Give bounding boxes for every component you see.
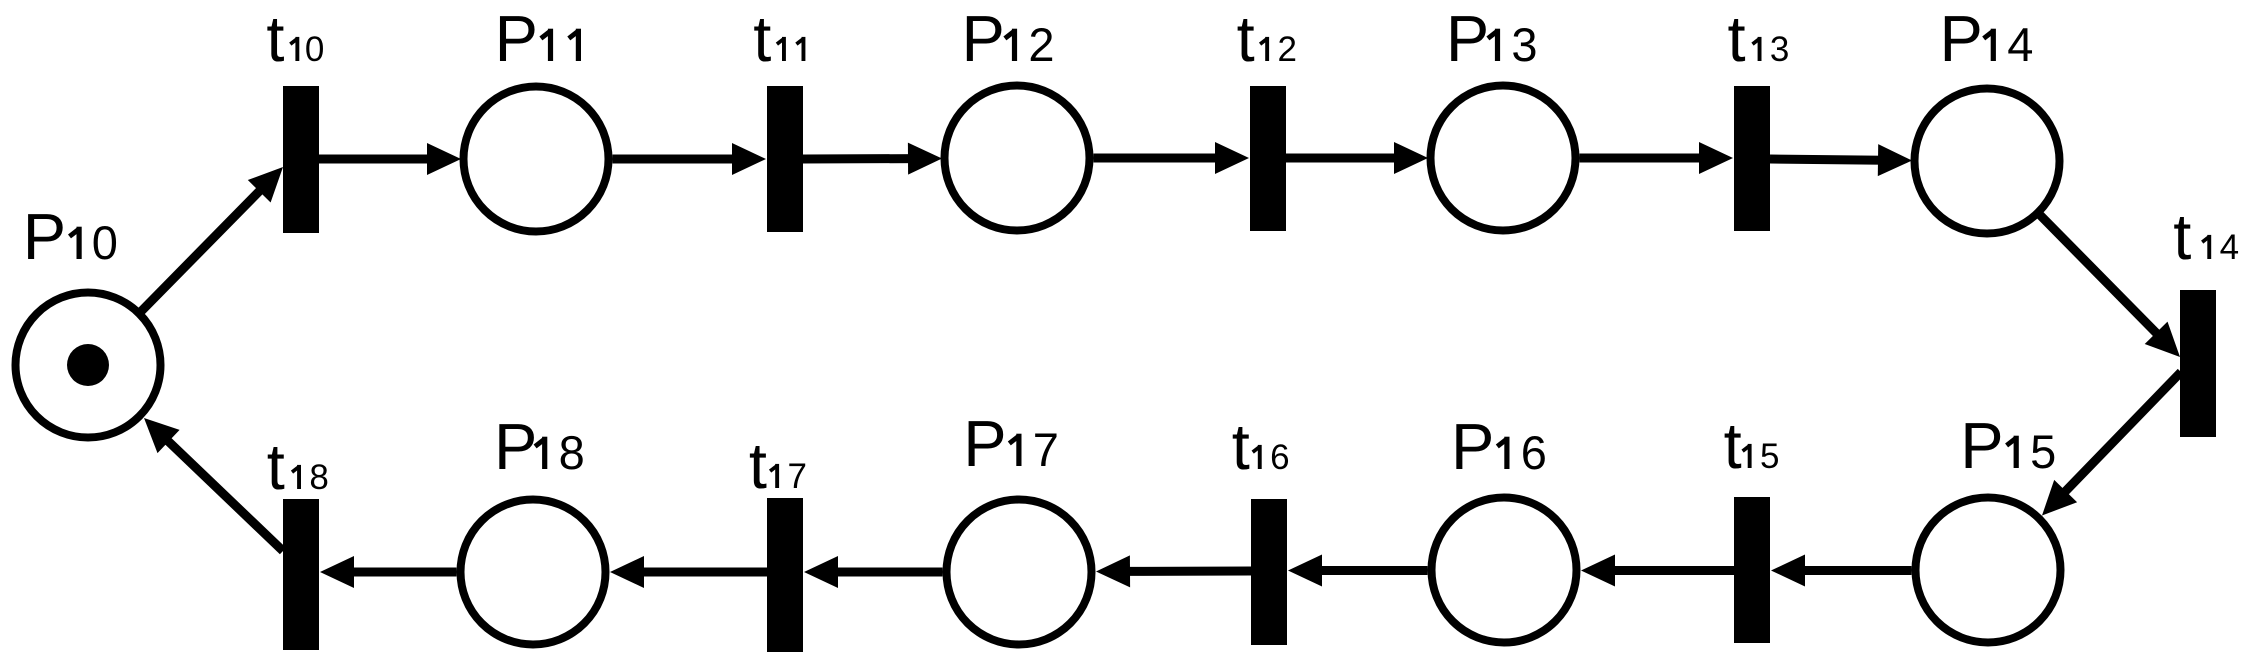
transition t16 bbox=[1251, 499, 1287, 645]
transition t11 bbox=[767, 86, 803, 232]
svg-text:0: 0 bbox=[92, 216, 118, 269]
place P15 bbox=[1916, 498, 2061, 643]
transition t18 bbox=[283, 499, 319, 650]
svg-text:t: t bbox=[1237, 2, 1255, 75]
svg-text:6: 6 bbox=[1521, 426, 1547, 479]
svg-text:3: 3 bbox=[1770, 30, 1789, 69]
place P12 bbox=[945, 86, 1090, 231]
label t14 bbox=[2173, 200, 2239, 273]
wire t10-P11 bbox=[319, 143, 461, 175]
svg-text:6: 6 bbox=[1270, 438, 1289, 477]
wire P11-t11 bbox=[613, 143, 767, 175]
label t15 bbox=[1724, 409, 1780, 482]
svg-text:2: 2 bbox=[1028, 18, 1054, 71]
wire t11-P12 bbox=[803, 143, 942, 175]
svg-text:t: t bbox=[749, 429, 767, 502]
label t11 bbox=[753, 2, 805, 75]
label P15 bbox=[1960, 409, 2056, 482]
label P13 bbox=[1446, 2, 1538, 75]
svg-text:8: 8 bbox=[559, 426, 585, 479]
place P18 bbox=[461, 500, 606, 645]
label t12 bbox=[1237, 2, 1297, 75]
wire P10-t10 bbox=[142, 167, 284, 311]
wire t15-P16 bbox=[1581, 555, 1734, 587]
wire t13-P14 bbox=[1770, 144, 1912, 176]
place P17 bbox=[947, 500, 1092, 645]
wire P16-t16 bbox=[1288, 555, 1428, 587]
label P14 bbox=[1940, 2, 2034, 75]
svg-text:3: 3 bbox=[1511, 18, 1537, 71]
wire t17-P18 bbox=[610, 556, 767, 588]
svg-text:P: P bbox=[1451, 410, 1494, 483]
svg-text:P: P bbox=[494, 410, 537, 483]
svg-text:t: t bbox=[267, 430, 285, 503]
svg-text:4: 4 bbox=[2007, 18, 2033, 71]
label t18 bbox=[267, 430, 329, 503]
svg-text:4: 4 bbox=[2220, 228, 2239, 267]
svg-text:7: 7 bbox=[1033, 423, 1059, 476]
label t13 bbox=[1728, 2, 1790, 75]
svg-text:t: t bbox=[266, 2, 284, 75]
token in P10 bbox=[67, 344, 109, 386]
wire P14-t14 bbox=[2040, 215, 2180, 357]
label P18 bbox=[494, 410, 585, 483]
svg-text:2: 2 bbox=[1278, 30, 1297, 69]
wire t16-P17 bbox=[1096, 555, 1251, 587]
svg-text:5: 5 bbox=[2030, 425, 2056, 478]
transition t10 bbox=[283, 86, 319, 233]
wire P18-t18 bbox=[320, 556, 457, 588]
wire P13-t13 bbox=[1580, 142, 1734, 174]
svg-text:t: t bbox=[1724, 409, 1742, 482]
label P11 bbox=[495, 2, 581, 75]
label P17 bbox=[963, 407, 1059, 480]
label P12 bbox=[962, 2, 1055, 75]
transition t17 bbox=[767, 498, 803, 652]
place P14 bbox=[1915, 89, 2060, 234]
place P10 bbox=[16, 293, 161, 438]
svg-text:7: 7 bbox=[788, 457, 807, 496]
label t17 bbox=[749, 429, 807, 502]
svg-text:t: t bbox=[1232, 410, 1250, 483]
svg-text:P: P bbox=[963, 407, 1006, 480]
wire P12-t12 bbox=[1094, 142, 1250, 174]
svg-text:P: P bbox=[1940, 2, 1983, 75]
transition t12 bbox=[1250, 86, 1286, 231]
svg-text:P: P bbox=[962, 2, 1005, 75]
label P16 bbox=[1451, 410, 1547, 483]
place P13 bbox=[1431, 86, 1576, 231]
wire P17-t17 bbox=[804, 556, 943, 588]
svg-text:t: t bbox=[1728, 2, 1746, 75]
svg-text:P: P bbox=[1446, 2, 1489, 75]
svg-text:P: P bbox=[23, 200, 66, 273]
svg-text:0: 0 bbox=[305, 30, 324, 69]
transition t13 bbox=[1734, 86, 1770, 231]
svg-text:t: t bbox=[2173, 200, 2191, 273]
transition t15 bbox=[1734, 497, 1770, 643]
svg-text:P: P bbox=[495, 2, 538, 75]
svg-text:P: P bbox=[1960, 409, 2003, 482]
wire t14-P15 bbox=[2042, 372, 2181, 516]
transition t14 bbox=[2180, 290, 2216, 437]
label t16 bbox=[1232, 410, 1290, 483]
wire t12-P13 bbox=[1286, 142, 1428, 174]
place P11 bbox=[464, 87, 609, 232]
label P10 bbox=[23, 200, 118, 273]
svg-text:8: 8 bbox=[309, 458, 328, 497]
label t10 bbox=[266, 2, 324, 75]
wire P15-t15 bbox=[1771, 555, 1912, 587]
svg-text:t: t bbox=[753, 2, 771, 75]
wire t18-P10 bbox=[144, 418, 283, 551]
svg-text:5: 5 bbox=[1760, 437, 1779, 476]
place P16 bbox=[1432, 498, 1577, 643]
